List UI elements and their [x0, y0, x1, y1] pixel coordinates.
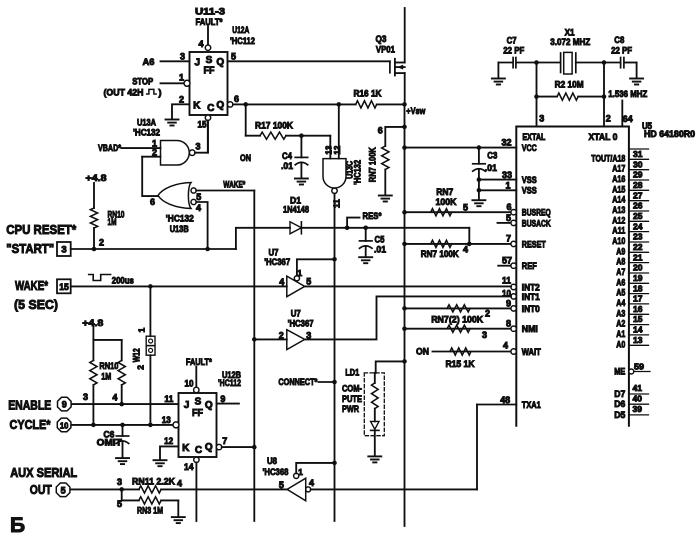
- op-amp U5 IC outline: [516, 127, 629, 426]
- svg-text:5: 5: [61, 485, 66, 495]
- wire OUT to RN11: [71, 488, 139, 490]
- junction C5: [363, 226, 368, 231]
- IC internal left pin labels: [522, 143, 551, 410]
- pulse symbol 200us: [89, 275, 134, 286]
- svg-text:23: 23: [633, 232, 643, 242]
- svg-text:ME: ME: [614, 367, 625, 377]
- wire RN3 branch: [122, 489, 139, 500]
- nand gate U13A: [161, 141, 196, 166]
- pin 1 label: [152, 139, 157, 149]
- net 1.536 MHZ label: [608, 89, 647, 100]
- transistor Q3 leads: [395, 63, 405, 74]
- U8 refdes: [263, 456, 289, 478]
- resistor R2 10M: [537, 93, 605, 100]
- svg-text:K: K: [193, 100, 201, 111]
- diode D1 1N4148: [290, 222, 301, 234]
- svg-text:15: 15: [198, 120, 207, 130]
- svg-text:D5: D5: [614, 410, 625, 420]
- pin 7 Qbar bubble: [216, 444, 221, 449]
- svg-text:17: 17: [633, 294, 643, 304]
- svg-text:RESET: RESET: [522, 239, 546, 249]
- junction EXTAL node: [534, 60, 539, 65]
- pin 6 bubble at U12A Qbar: [228, 102, 233, 107]
- svg-text:33: 33: [502, 170, 512, 180]
- wire TXA1 down to U8 input: [476, 405, 478, 490]
- svg-text:A17: A17: [612, 164, 625, 174]
- svg-text:24: 24: [633, 221, 643, 231]
- wire U7A enable to CONNECT*: [297, 259, 335, 275]
- W12 labels: [132, 327, 147, 369]
- connector 15 WAKE: [57, 279, 71, 293]
- svg-text:Q3: Q3: [376, 34, 387, 45]
- svg-text:10: 10: [185, 379, 194, 389]
- wire VBAD* to U13A pin 1: [122, 147, 161, 149]
- pin 13 label: [323, 145, 333, 154]
- U12A internal labels: [193, 55, 224, 114]
- svg-text:9: 9: [62, 400, 67, 410]
- svg-text:XTAL 0: XTAL 0: [589, 132, 618, 142]
- svg-text:2: 2: [152, 148, 157, 158]
- junction VCC bus: [402, 145, 407, 150]
- pin 40 D6: [614, 394, 648, 410]
- pin 5 BUSACK stub: [498, 213, 517, 226]
- junction NMI bus: [402, 326, 407, 331]
- pin 64 label: [623, 114, 633, 124]
- resistor RN3 1M: [139, 497, 161, 504]
- svg-text:57: 57: [502, 255, 512, 265]
- svg-text:WAIT: WAIT: [522, 347, 541, 357]
- svg-text:16: 16: [633, 304, 643, 314]
- LD1 name: [342, 383, 362, 415]
- svg-text:A6: A6: [616, 277, 625, 287]
- svg-text:A14: A14: [612, 195, 625, 205]
- ground at LD1: [368, 456, 381, 462]
- pin 2 label: [152, 148, 157, 158]
- wire FAULT* to U12A S pin 4: [207, 26, 209, 45]
- svg-text:J: J: [184, 400, 190, 411]
- pin S bubble of U12A: [205, 45, 210, 50]
- wire XTAL vertical pin 2: [603, 63, 605, 127]
- wire A6 to U12A pin 3: [161, 60, 190, 62]
- svg-text:A16: A16: [612, 174, 625, 184]
- svg-text:RN7 100K: RN7 100K: [368, 147, 379, 182]
- svg-text:D7: D7: [614, 389, 625, 399]
- svg-text:22: 22: [633, 242, 643, 252]
- U13C refdes: [344, 160, 363, 185]
- R15 label: [446, 359, 475, 370]
- net +Vsw label: [406, 106, 425, 117]
- svg-text:1M: 1M: [101, 371, 111, 382]
- U8 pin labels: [279, 467, 314, 490]
- wire RN3 to ground: [161, 500, 178, 516]
- node WAKE* label: [223, 179, 245, 190]
- svg-text:Q: Q: [205, 400, 213, 411]
- svg-text:28: 28: [633, 180, 643, 190]
- wire RN10 pin4 to ENABLE: [121, 385, 123, 404]
- ground at C7: [492, 63, 505, 85]
- pin 1 inverter bubble: [184, 80, 190, 86]
- svg-text:+4.8: +4.8: [86, 173, 107, 184]
- pin 32 VCC wire: [405, 138, 517, 148]
- C5 labels: [374, 235, 387, 256]
- svg-text:): ): [158, 87, 161, 98]
- svg-text:Q: Q: [216, 57, 224, 68]
- svg-text:(5 SEC): (5 SEC): [14, 297, 58, 312]
- node WAKE* connector label: [15, 278, 49, 293]
- svg-text:'HC368: 'HC368: [263, 467, 289, 478]
- ground at U12B K: [154, 460, 167, 466]
- resistor RN7(2) 100K nmi: [447, 325, 470, 332]
- resistor R15 1K: [450, 348, 471, 355]
- svg-text:11: 11: [164, 394, 173, 404]
- LED LD1 symbol: [371, 421, 379, 456]
- node ON label second: [416, 347, 429, 358]
- pin 3 label: [539, 114, 544, 124]
- svg-text:ON: ON: [416, 347, 429, 358]
- svg-text:A5: A5: [616, 288, 625, 298]
- resistor RN7(2) 100K int0: [447, 305, 470, 312]
- svg-text:'HC132: 'HC132: [166, 213, 194, 224]
- U8 enable bubble: [294, 473, 299, 478]
- junction +Vsw corner: [402, 102, 407, 107]
- svg-text:C: C: [195, 445, 202, 456]
- wire +4.8 to RN10: [93, 183, 95, 208]
- node FAULT* second label: [186, 357, 212, 368]
- resistor RN10 1M pin3: [90, 340, 97, 385]
- svg-text:1: 1: [137, 327, 147, 332]
- svg-text:HD 64180R0: HD 64180R0: [644, 129, 695, 139]
- ground at C5: [359, 257, 372, 263]
- svg-text:.01: .01: [374, 245, 387, 256]
- svg-text:RN7(2) 100K: RN7(2) 100K: [431, 315, 483, 326]
- pin 9 INT0 wire: [405, 298, 517, 311]
- wire U12B pin7 to WAKE vertical: [222, 446, 255, 448]
- pin 10 label: [185, 379, 194, 389]
- RN7 nmi pin label: [482, 330, 487, 340]
- capacitor C6 OMIT: [116, 425, 128, 458]
- RN7 vertical label: [368, 147, 379, 182]
- C8 labels: [611, 35, 632, 56]
- svg-text:100K: 100K: [436, 197, 457, 208]
- junction RESET wire: [467, 242, 472, 247]
- svg-text:Б: Б: [10, 514, 25, 537]
- pin 7 label: [222, 436, 227, 446]
- svg-text:25: 25: [633, 211, 643, 221]
- svg-text:18: 18: [633, 283, 643, 293]
- wire ENABLE to U12B J: [72, 403, 179, 405]
- svg-text:K: K: [182, 443, 190, 454]
- RN7 pin 6 label: [378, 126, 383, 136]
- junction pin6 node: [243, 102, 248, 107]
- pin 39 D5: [614, 404, 648, 420]
- svg-text:CONNECT*: CONNECT*: [278, 377, 317, 388]
- svg-text:"START": "START": [6, 241, 54, 256]
- svg-text:EXTAL: EXTAL: [522, 132, 545, 142]
- svg-text:5: 5: [506, 213, 511, 223]
- svg-text:A1: A1: [616, 329, 625, 339]
- RN11 pin 3 label: [117, 477, 122, 487]
- svg-text:2: 2: [179, 95, 184, 105]
- svg-text:INT0: INT0: [522, 304, 540, 314]
- svg-text:S: S: [195, 397, 202, 408]
- svg-text:PWR: PWR: [342, 404, 359, 415]
- svg-text:15: 15: [59, 282, 69, 292]
- pin 1 VSS wire: [479, 181, 516, 191]
- svg-text:6: 6: [150, 197, 155, 207]
- wire U13B pin5 WAKE* net: [196, 190, 254, 192]
- junction CONNECT label: [332, 380, 337, 385]
- node OUT label: [30, 482, 52, 497]
- EXTAL pin label: [522, 132, 545, 142]
- jumper W12: [146, 286, 155, 425]
- svg-text:BUSREQ: BUSREQ: [522, 208, 551, 218]
- svg-text:5: 5: [117, 499, 122, 509]
- crystal X1: [537, 52, 605, 74]
- RN10 pin 3 label: [83, 392, 88, 402]
- wire U13C output CONNECT* vertical: [334, 194, 336, 522]
- ground at RN7: [379, 196, 392, 202]
- node U11-3 FAULT* net label: [195, 6, 225, 28]
- node (OUT 42H pulse) label: [104, 87, 162, 98]
- U12B internal labels: [182, 397, 213, 457]
- svg-text:7: 7: [506, 234, 511, 244]
- svg-text:AUX SERIAL: AUX SERIAL: [10, 465, 77, 480]
- junction CONNECT enable: [332, 257, 337, 262]
- svg-text:R16 1K: R16 1K: [354, 88, 382, 99]
- pin 4 label: [196, 203, 201, 213]
- pin 2 label: [179, 95, 184, 105]
- RN11 label: [132, 476, 182, 488]
- pin 48 TXA1 wire: [477, 395, 516, 405]
- pin 12 label: [332, 145, 342, 154]
- svg-text:'HC367: 'HC367: [288, 318, 314, 329]
- transistor Q3 gate bar: [389, 61, 391, 73]
- wire D1 cathode to RES*: [301, 227, 469, 229]
- svg-text:13: 13: [633, 335, 643, 345]
- junction RN10 pin3 cycle: [91, 423, 96, 428]
- pin 15 label: [198, 120, 207, 130]
- capacitor C8 22PF: [604, 58, 637, 68]
- node VBAD* label: [98, 143, 121, 154]
- C4 labels: [281, 151, 294, 172]
- flip-flop U12A box: [190, 52, 228, 115]
- svg-text:48: 48: [500, 395, 510, 405]
- wire pin 64 stub: [621, 101, 623, 127]
- junction RES* stub: [345, 226, 350, 231]
- connector 9 ENABLE: [58, 397, 72, 411]
- LD1 series resistor: [372, 373, 379, 422]
- svg-text:6: 6: [506, 202, 511, 212]
- svg-text:9: 9: [220, 394, 225, 404]
- svg-text:3: 3: [482, 330, 487, 340]
- svg-text:TOUT/A18: TOUT/A18: [591, 153, 625, 163]
- ground at C6: [116, 458, 129, 464]
- C3 labels: [485, 151, 497, 173]
- svg-text:RES*: RES*: [363, 211, 382, 222]
- U13A refdes: [133, 117, 160, 138]
- ground at RN3: [172, 517, 185, 523]
- wire U13C pin13 from R17: [329, 136, 331, 159]
- wire LD1 to +Vsw: [376, 361, 405, 373]
- pin 14 clock bubble: [194, 457, 199, 462]
- op-amp U8 inverter: [287, 478, 306, 501]
- svg-text:'HC112: 'HC112: [230, 36, 255, 47]
- svg-text:4: 4: [279, 277, 284, 287]
- capacitor C4 .01: [295, 136, 308, 178]
- svg-text:5: 5: [196, 192, 201, 202]
- Q3 refdes: [376, 34, 396, 56]
- svg-text:(OUT 42H: (OUT 42H: [104, 87, 144, 98]
- U7A pin labels: [279, 268, 311, 287]
- svg-text:21: 21: [633, 252, 643, 262]
- svg-text:A8: A8: [616, 257, 625, 267]
- junction R2 left: [534, 94, 539, 99]
- wire U8 enable to CONNECT*: [296, 463, 334, 473]
- wire START up to D1: [236, 228, 290, 249]
- pin 13 bubble U12B: [173, 422, 179, 428]
- RN7(2) labels: [431, 309, 490, 326]
- pin 6 label: [234, 94, 239, 104]
- svg-text:ON: ON: [240, 153, 251, 164]
- svg-text:A9: A9: [616, 246, 625, 256]
- D1 refdes: [283, 195, 309, 215]
- svg-text:31: 31: [633, 149, 643, 159]
- node CYCLE* label: [10, 417, 52, 432]
- svg-text:FAULT*: FAULT*: [196, 17, 223, 28]
- svg-text:U13B: U13B: [170, 224, 189, 235]
- pin 2 label: [606, 114, 611, 124]
- pin 10 INT1 bubble: [502, 288, 516, 299]
- svg-text:40: 40: [633, 394, 643, 404]
- svg-text:BUSACK: BUSACK: [522, 218, 551, 228]
- svg-text:RN7 100K: RN7 100K: [421, 249, 459, 260]
- svg-text:200us: 200us: [112, 276, 134, 286]
- IC address pin labels: [591, 153, 625, 349]
- svg-text:4: 4: [196, 203, 201, 213]
- svg-text:C3: C3: [487, 151, 497, 161]
- svg-text:14: 14: [184, 462, 194, 472]
- wire RN11 to U8 output: [161, 488, 287, 490]
- capacitor C5 .01: [360, 228, 373, 257]
- right ladder pin numbers: [633, 149, 643, 345]
- node AUX SERIAL label: [10, 465, 77, 480]
- wire U13C pin12 from R16: [338, 104, 340, 158]
- svg-text:64: 64: [623, 114, 633, 124]
- svg-text:REF: REF: [522, 261, 537, 271]
- wire U7B output to INT1: [305, 296, 511, 339]
- svg-text:RN11 2.2K: RN11 2.2K: [132, 476, 175, 487]
- resistor RN7 100K vertical: [382, 127, 405, 195]
- svg-text:27: 27: [633, 190, 643, 200]
- junction C4: [299, 133, 304, 138]
- svg-text:4: 4: [112, 393, 117, 403]
- svg-text:J: J: [195, 58, 201, 69]
- nand gate U13C: [323, 159, 346, 194]
- svg-text:1N4148: 1N4148: [283, 204, 309, 215]
- R16 label: [354, 88, 382, 99]
- power +4.8 first: [86, 173, 107, 184]
- svg-text:39: 39: [633, 404, 643, 414]
- C7 labels: [503, 36, 524, 57]
- pin 5 Q output wire to Q3 gate: [228, 60, 390, 62]
- svg-text:OMIT: OMIT: [97, 438, 122, 449]
- svg-text:W12: W12: [132, 348, 142, 362]
- svg-text:3: 3: [195, 142, 200, 152]
- svg-text:59: 59: [634, 362, 644, 372]
- svg-text:.01: .01: [281, 161, 294, 172]
- svg-text:22 PF: 22 PF: [503, 45, 524, 56]
- svg-text:WAKE*: WAKE*: [15, 278, 49, 293]
- connector 3 START: [57, 242, 71, 256]
- wire U13A pin 2: [142, 156, 160, 158]
- wire U13A pin2 to U13B output: [142, 157, 158, 196]
- node RES* stub and label: [347, 211, 382, 228]
- svg-text:A3: A3: [616, 308, 625, 318]
- wire START line: [71, 248, 236, 250]
- RN3 label: [137, 505, 163, 516]
- svg-text:5: 5: [231, 52, 236, 62]
- svg-text:3: 3: [539, 114, 544, 124]
- R2 label: [555, 80, 584, 91]
- wire U13B pin4 to START line: [196, 202, 207, 249]
- pin 41 D7: [614, 383, 648, 399]
- svg-text:VSS: VSS: [522, 186, 537, 196]
- LD1 refdes: [345, 368, 360, 379]
- svg-text:LD1: LD1: [345, 368, 360, 379]
- junction RN11 RN3: [119, 487, 124, 492]
- svg-text:3: 3: [61, 245, 66, 256]
- svg-text:R15 1K: R15 1K: [446, 359, 475, 370]
- svg-text:5: 5: [306, 276, 311, 286]
- svg-text:2: 2: [99, 238, 104, 248]
- svg-text:3: 3: [180, 52, 185, 62]
- svg-text:1: 1: [179, 73, 184, 83]
- ground at C3: [472, 200, 485, 206]
- svg-text:A0: A0: [616, 339, 625, 349]
- resistor RN10 1M: [90, 208, 97, 228]
- svg-text:A13: A13: [612, 205, 625, 215]
- wire +4.8 tee: [93, 327, 121, 361]
- U7 refdes first: [264, 248, 290, 268]
- wire U12A pin6 node down to R17: [245, 104, 247, 135]
- svg-text:11: 11: [332, 199, 342, 208]
- wire U12B K pin 12 to ground: [160, 446, 179, 459]
- wire +Vsw bus vertical: [404, 104, 406, 526]
- svg-text:32: 32: [502, 138, 512, 148]
- svg-text:VCC: VCC: [522, 143, 537, 153]
- U7B pin labels: [279, 330, 312, 340]
- pin 1 label: [179, 73, 184, 83]
- svg-text:A11: A11: [612, 226, 625, 236]
- svg-text:15: 15: [633, 314, 643, 324]
- svg-text:S: S: [206, 55, 213, 66]
- svg-text:VP01: VP01: [376, 45, 396, 56]
- node A6 label: [143, 57, 155, 68]
- node START label: [6, 241, 54, 256]
- wire RN10 to START line: [93, 228, 95, 249]
- RN3 pin 5 label: [117, 499, 122, 509]
- wire U8 input from TXA1: [311, 488, 477, 490]
- pin 33 VSS wire: [479, 170, 516, 180]
- capacitor C3 .01: [473, 145, 486, 199]
- pin 4 label: [198, 39, 203, 49]
- svg-text:2: 2: [485, 309, 490, 319]
- svg-text:Q: Q: [205, 442, 213, 453]
- pin 4 WAIT wire: [433, 340, 517, 354]
- wire WAKE* vertical: [253, 191, 255, 522]
- wire U12B pin 14 down: [195, 463, 197, 522]
- svg-text:A2: A2: [616, 319, 625, 329]
